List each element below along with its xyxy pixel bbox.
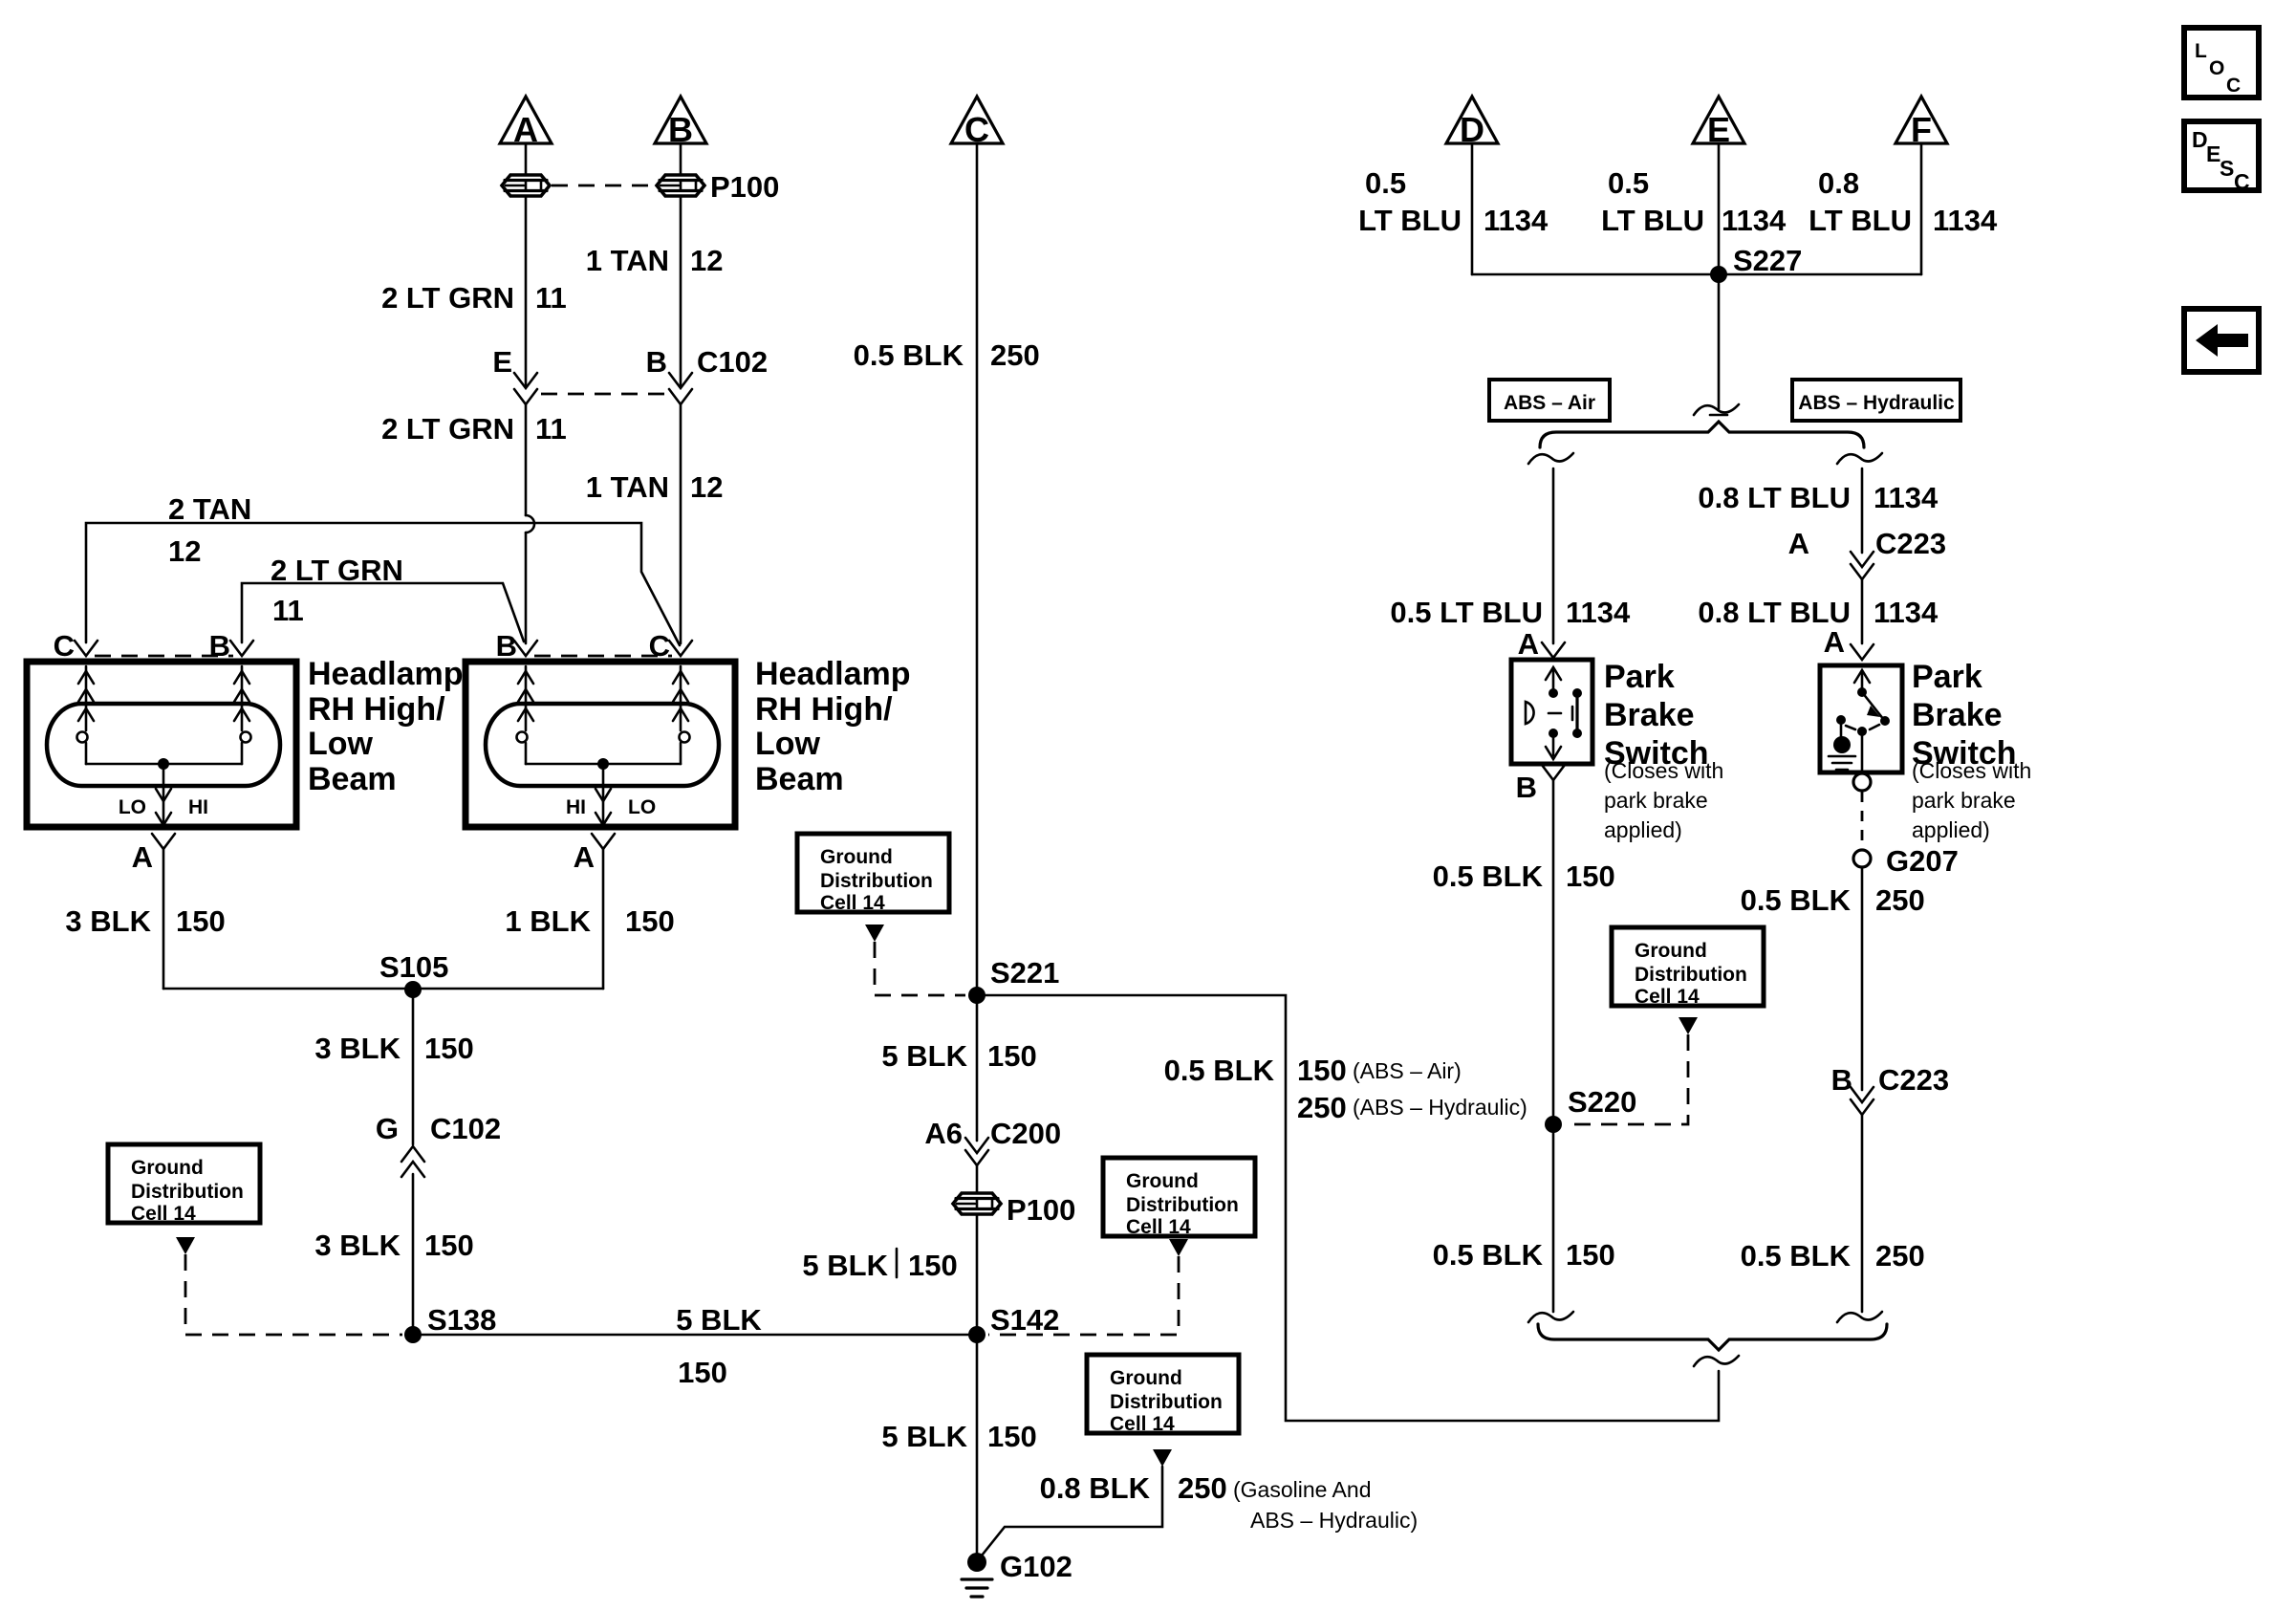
svg-text:A: A [574,840,595,874]
svg-text:1 TAN: 1 TAN [586,470,669,504]
wire C223 to switch 0.8 LT BLU 1134 [1861,579,1864,643]
wire splice bar S227 [1472,273,1921,276]
left switch contact arrow down [1552,733,1555,755]
svg-text:Ground: Ground [131,1157,204,1179]
svg-text:HI: HI [188,796,208,818]
node E page connector triangle [1693,97,1744,143]
svg-text:0.5 BLK: 0.5 BLK [854,338,964,372]
svg-text:0.5 BLK: 0.5 BLK [1433,859,1544,893]
wire from triangle B to P100 [680,143,682,174]
pin A arrow left headlamp [152,834,175,849]
svg-text:11: 11 [535,281,567,315]
svg-text:3 BLK: 3 BLK [65,904,151,938]
svg-text:A: A [1824,625,1845,659]
svg-text:A6: A6 [924,1117,963,1150]
right switch upper contact dot [1857,687,1867,697]
svg-text:LT BLU: LT BLU [1601,204,1704,237]
top distribution brace [1540,422,1864,447]
svg-text:0.5 BLK: 0.5 BLK [1164,1054,1275,1087]
triangle marker S220 gbox [1679,1017,1698,1034]
wire S138 to S142 5 BLK 150 [413,1334,977,1337]
svg-text:applied): applied) [1912,817,1990,842]
svg-text:1134: 1134 [1722,204,1787,237]
triangle marker right-upper gbox [1169,1239,1188,1256]
svg-text:150: 150 [987,1420,1037,1453]
svg-text:3 BLK: 3 BLK [314,1032,401,1065]
break squiggle below S227 wire [1710,414,1727,417]
svg-text:C102: C102 [430,1112,501,1145]
park brake switch ABS-Hydraulic box [1820,665,1902,772]
wire right lamp ground 1 BLK 150 [602,849,605,989]
wire A below C102, 2 LT GRN 11 [525,404,528,515]
svg-text:0.5 BLK: 0.5 BLK [1741,883,1852,917]
svg-text:12: 12 [690,244,723,277]
pin C arrow left headlamp [75,641,97,656]
svg-text:Beam: Beam [308,761,397,797]
wire triangle F leg 0.8 LT BLU 1134 [1920,143,1923,274]
svg-text:C: C [649,629,670,663]
svg-text:0.8 LT BLU: 0.8 LT BLU [1698,481,1851,514]
svg-text:1134: 1134 [1484,204,1549,237]
wire from triangle A to P100 [525,143,528,174]
svg-text:150: 150 [424,1032,474,1065]
ground distribution cell 14 box mid [797,834,949,912]
svg-text:250: 250 [1875,883,1925,917]
svg-text:(Closes with: (Closes with [1604,758,1723,783]
svg-text:Brake: Brake [1604,697,1695,733]
svg-text:1134: 1134 [1874,596,1939,629]
node A page connector triangle [500,97,552,143]
connector C223 pin B arrows [1851,1087,1874,1102]
svg-text:park brake: park brake [1912,788,2016,813]
svg-text:1134: 1134 [1933,204,1998,237]
svg-text:Distribution: Distribution [1126,1194,1239,1216]
wire C triangle to S221 0.5 BLK 250 [976,143,979,994]
svg-text:Headlamp: Headlamp [755,656,911,692]
svg-text:150: 150 [908,1249,958,1282]
svg-text:B: B [209,629,230,663]
svg-text:LT BLU: LT BLU [1809,204,1912,237]
svg-text:150: 150 [678,1356,727,1389]
svg-text:RH High/: RH High/ [755,691,893,728]
svg-text:150: 150 [424,1229,474,1262]
svg-text:B: B [1516,771,1537,804]
node B page connector triangle [655,97,706,143]
right switch bottom terminal circle [1853,773,1871,791]
dashed lead right-upper gbox to S142 [988,1256,1179,1335]
wire left chain 0.5 LT BLU 1134 [1552,468,1555,643]
svg-text:150: 150 [1566,1238,1615,1272]
ground distribution cell 14 box S220 [1612,927,1764,1006]
svg-text:Cell 14: Cell 14 [820,892,885,914]
svg-text:RH High/: RH High/ [308,691,445,728]
wire right chain 0.8 LT BLU 1134 [1861,468,1864,553]
wire S221 down 5 BLK 150 [976,995,979,1141]
svg-text:0.5 BLK: 0.5 BLK [1433,1238,1544,1272]
svg-text:Ground: Ground [820,846,893,868]
wire 2 LT GRN 11 branch [242,583,524,642]
svg-text:Distribution: Distribution [1110,1391,1223,1413]
svg-text:Park: Park [1912,659,1982,695]
pin B arrow left switch [1542,765,1565,780]
svg-text:ABS – Hydraulic): ABS – Hydraulic) [1250,1508,1418,1533]
svg-text:park brake: park brake [1604,788,1708,813]
pin B arrow left headlamp [230,641,253,656]
svg-text:150: 150 [625,904,675,938]
wire left switch to S220 0.5 BLK 150 [1552,780,1555,1312]
ground distribution cell 14 box right-lower [1087,1355,1239,1433]
wire S142 to G102 5 BLK 150 [976,1335,979,1560]
wire triangle E leg 0.5 LT BLU 1134 [1718,143,1721,274]
break squiggle right chain bottom [1837,1312,1882,1322]
svg-text:0.5: 0.5 [1608,166,1649,200]
svg-text:LO: LO [119,796,146,818]
splice S220 junction dot [1545,1116,1562,1133]
svg-text:C: C [54,629,75,663]
wire 0.8 BLK 250 to G102 [978,1467,1162,1560]
triangle marker mid gbox [865,925,884,942]
svg-text:O: O [2209,57,2224,79]
right switch center stem [1861,731,1864,772]
svg-text:S: S [2220,156,2234,181]
connector C102 pin B arrows [669,373,692,388]
svg-text:L: L [2195,40,2207,62]
svg-text:C223: C223 [1878,1063,1949,1097]
svg-text:Brake: Brake [1912,697,2003,733]
right switch contact arrow up [1861,672,1864,689]
svg-text:11: 11 [535,412,567,446]
svg-text:B: B [496,629,517,663]
left switch upper contact dot [1549,688,1558,698]
svg-text:250: 250 [1875,1239,1925,1273]
wire S227 down to break [1718,274,1721,409]
svg-text:5 BLK: 5 BLK [676,1303,762,1337]
svg-text:(Gasoline And: (Gasoline And [1233,1477,1371,1502]
ground distribution cell 14 box left [108,1144,260,1223]
dashed lead S220 gbox [1568,1034,1688,1124]
svg-text:S142: S142 [990,1303,1059,1337]
break squiggle right chain top [1837,453,1882,464]
svg-text:Cell 14: Cell 14 [1110,1413,1175,1435]
svg-text:5 BLK: 5 BLK [881,1039,967,1073]
connector C102 pin E arrows [514,373,537,388]
svg-text:Ground: Ground [1635,940,1707,962]
svg-text:Low: Low [308,726,374,762]
left switch closed bar [1572,688,1582,698]
svg-text:C: C [2226,75,2241,97]
ground distribution cell 14 box right-upper [1103,1158,1255,1236]
svg-text:ABS – Air: ABS – Air [1504,392,1595,414]
svg-text:2 LT GRN: 2 LT GRN [381,281,514,315]
svg-text:C200: C200 [990,1117,1061,1150]
bottom distribution brace [1538,1324,1887,1350]
right switch case ground assembly [1836,715,1846,725]
svg-text:LT BLU: LT BLU [1358,204,1462,237]
svg-text:Distribution: Distribution [1635,964,1747,986]
svg-text:Ground: Ground [1126,1170,1199,1192]
wire P100 to S142 5 BLK 150 [976,1215,979,1335]
svg-text:150: 150 [176,904,226,938]
break squiggle left chain top [1528,453,1573,464]
right switch blade end dot [1880,716,1890,726]
svg-text:S227: S227 [1733,244,1802,277]
right switch linkage dashes [1846,726,1855,729]
wire C200 to P100 [976,1165,979,1192]
svg-text:2 LT GRN: 2 LT GRN [271,554,403,587]
svg-text:2 LT GRN: 2 LT GRN [381,412,514,446]
svg-text:C223: C223 [1875,527,1946,560]
pin A arrow right switch [1851,644,1874,660]
splice S221 junction dot [968,987,986,1004]
svg-text:150: 150 [1297,1054,1347,1087]
svg-text:150: 150 [987,1039,1037,1073]
pin C arrow right headlamp [669,641,692,656]
node D page connector triangle [1446,97,1498,143]
dashed connector face right headlamp [534,655,672,658]
wire B P100 to C102, 1 TAN 12 [680,197,682,386]
pin A arrow left switch [1542,642,1565,658]
legend DESC box [2184,121,2259,190]
svg-text:Beam: Beam [755,761,844,797]
svg-text:Ground: Ground [1110,1367,1182,1389]
wire triangle D leg 0.5 LT BLU 1134 [1471,143,1474,274]
legend back-arrow box [2184,309,2259,372]
left switch actuator D symbol [1526,702,1534,724]
dashed lead mid gbox to S221 [875,942,965,995]
svg-text:0.8: 0.8 [1818,166,1859,200]
svg-text:G207: G207 [1886,844,1959,878]
break squiggle below bottom brace [1694,1356,1739,1366]
wire 2 TAN 12 branch [86,523,680,645]
svg-text:250: 250 [1297,1091,1347,1124]
svg-text:0.8 BLK: 0.8 BLK [1040,1471,1151,1505]
svg-text:(ABS – Hydraulic): (ABS – Hydraulic) [1353,1095,1527,1120]
ground G207 terminal circle [1853,850,1871,867]
svg-text:E: E [492,345,512,379]
svg-text:5 BLK: 5 BLK [802,1249,888,1282]
svg-text:1 TAN: 1 TAN [586,244,669,277]
splice S142 junction dot [968,1326,986,1343]
svg-text:Headlamp: Headlamp [308,656,464,692]
left switch lower contact dot [1549,729,1558,738]
svg-text:S105: S105 [379,950,448,984]
node F page connector triangle [1895,97,1947,143]
pin B arrow right headlamp [514,641,537,656]
svg-text:1134: 1134 [1566,596,1631,629]
svg-text:Distribution: Distribution [820,870,933,892]
svg-text:2 TAN: 2 TAN [168,492,251,526]
svg-text:Park: Park [1604,659,1675,695]
callout box ABS - Hydraulic [1792,380,1960,421]
svg-text:5 BLK: 5 BLK [881,1420,967,1453]
callout box ABS - Air [1489,380,1610,421]
svg-text:C: C [2234,169,2250,194]
dashed lead to G207 [1861,792,1864,849]
svg-text:0.5 BLK: 0.5 BLK [1741,1239,1852,1273]
svg-text:250: 250 [1178,1471,1227,1505]
svg-text:0.5: 0.5 [1365,166,1406,200]
svg-text:(ABS – Air): (ABS – Air) [1353,1058,1462,1083]
right switch center contact dot [1857,727,1867,736]
connector P100 grommet on C line [953,1193,1001,1214]
svg-text:12: 12 [168,534,201,568]
connector P100 grommet on wire B [657,175,704,196]
triangle marker left gbox [176,1237,195,1254]
headlamp left RH High/Low Beam box [27,662,296,827]
connector P100 grommet on wire A [502,175,550,196]
right switch blade with arrow [1862,692,1884,720]
svg-text:G102: G102 [1000,1550,1072,1583]
triangle marker right-lower gbox [1153,1449,1172,1467]
connector C200 pin A6 arrows [965,1138,988,1153]
pin A arrow right headlamp [592,834,615,849]
left switch contact arrow up [1552,669,1555,690]
svg-text:12: 12 [690,470,723,504]
svg-text:0.8 LT BLU: 0.8 LT BLU [1698,596,1851,629]
wire G207 down 0.5 BLK 250 [1861,867,1864,1090]
svg-text:Cell 14: Cell 14 [131,1203,196,1225]
svg-text:S138: S138 [427,1303,496,1337]
wire collector brace to S221 [977,995,1719,1421]
svg-text:A: A [132,840,153,874]
svg-text:0.5 LT BLU: 0.5 LT BLU [1390,596,1543,629]
dashed tie connector C102 [541,393,665,396]
svg-text:B: B [646,345,667,379]
svg-text:A: A [1518,627,1539,661]
svg-text:Cell 14: Cell 14 [1635,986,1700,1008]
wire B below C102, 1 TAN 12 [680,404,682,643]
svg-text:150: 150 [1566,859,1615,893]
svg-text:ABS – Hydraulic: ABS – Hydraulic [1798,392,1955,414]
svg-text:P100: P100 [710,170,779,204]
svg-text:Distribution: Distribution [131,1181,244,1203]
splice S105 junction dot [404,981,422,998]
park brake switch ABS-Air box [1511,660,1592,764]
svg-text:1 BLK: 1 BLK [505,904,591,938]
splice S138 junction dot [404,1326,422,1343]
svg-text:250: 250 [990,338,1040,372]
ground G102 symbol [967,1553,986,1572]
svg-text:A: A [1788,527,1809,560]
dashed lead left gbox to S138 [185,1254,402,1335]
dashed tie between P100 grommets [552,185,655,187]
svg-text:Low: Low [755,726,821,762]
wire C223 to brace 0.5 BLK 250 [1861,1115,1864,1312]
wire left lamp ground 3 BLK 150 [162,849,165,989]
svg-text:P100: P100 [1007,1193,1075,1227]
svg-text:S220: S220 [1568,1085,1636,1119]
svg-text:1134: 1134 [1874,481,1939,514]
svg-text:S221: S221 [990,956,1059,990]
dashed connector face left headlamp [95,655,233,658]
break squiggle left chain bottom [1528,1312,1573,1322]
svg-text:applied): applied) [1604,817,1682,842]
node C page connector triangle [951,97,1003,143]
svg-text:G: G [376,1112,399,1145]
splice S227 junction dot [1710,266,1727,283]
wire splice bar S105 [163,988,603,990]
svg-text:(Closes with: (Closes with [1912,758,2031,783]
headlamp right RH High/Low Beam box [466,662,735,827]
svg-text:3 BLK: 3 BLK [314,1229,401,1262]
connector C223 pin A arrows [1851,552,1874,567]
svg-text:C102: C102 [697,345,768,379]
connector C102 pin G arrows [401,1146,424,1162]
svg-text:HI: HI [566,796,586,818]
svg-text:LO: LO [628,796,656,818]
svg-text:B: B [1831,1063,1852,1097]
svg-text:11: 11 [272,594,304,627]
wire A P100 to C102, 2 LT GRN 11 [525,197,528,386]
svg-text:Cell 14: Cell 14 [1126,1216,1191,1238]
wire S105 down 3 BLK 150 [412,990,415,1144]
legend LOC box [2184,28,2259,98]
wire below C102 3 BLK 150 [412,1174,415,1335]
